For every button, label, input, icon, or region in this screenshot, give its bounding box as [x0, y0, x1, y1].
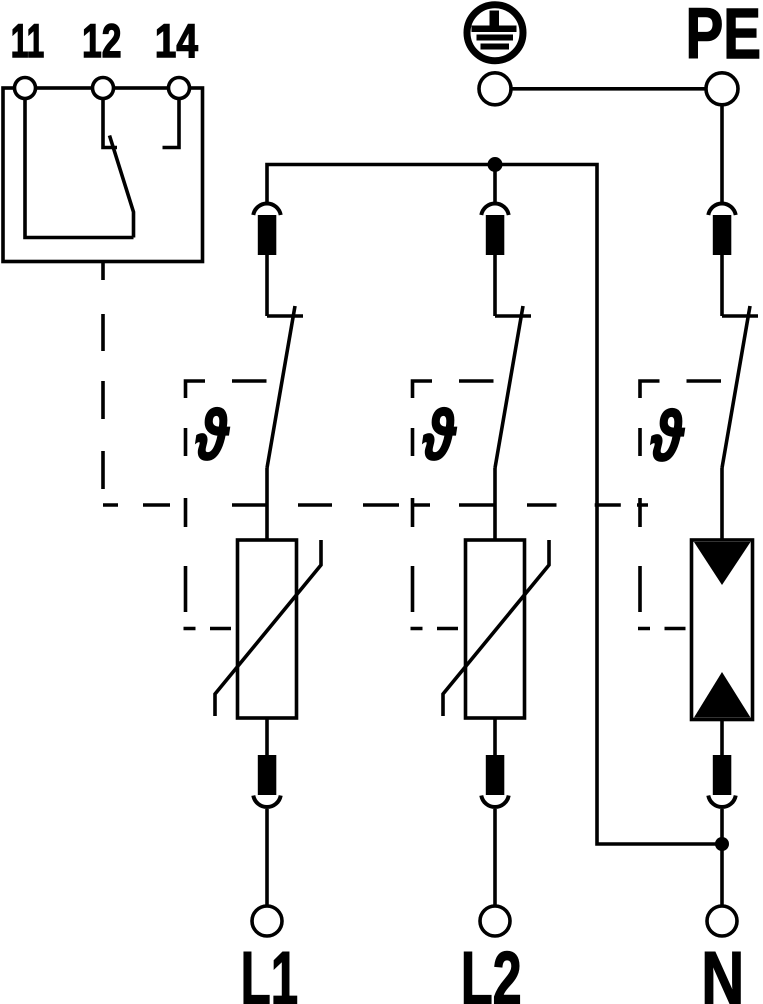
svg-text:12: 12	[82, 15, 122, 68]
terminal circle 12	[93, 78, 114, 99]
L2 varistor body	[466, 540, 525, 718]
L1 dashed enclosure	[184, 381, 267, 629]
dashed linkage horizontal run	[103, 503, 648, 507]
svg-text:ϑ: ϑ	[195, 397, 230, 475]
L1 wire varistor to bottom clamp	[265, 718, 269, 756]
N top clamp	[708, 203, 735, 255]
N wire clamp to junction	[720, 809, 724, 844]
svg-text:L1: L1	[241, 936, 299, 1004]
L1 top clamp	[253, 203, 280, 255]
svg-text:L2: L2	[461, 936, 522, 1004]
earth symbol stem and bars	[472, 11, 517, 50]
N spark gap lower electrode	[694, 672, 751, 718]
N theta symbol	[650, 398, 685, 476]
remote signalling contact box outline	[3, 88, 203, 262]
L1 varistor body	[238, 540, 297, 718]
earth terminal circle	[479, 73, 511, 105]
earth symbol ring	[467, 5, 523, 61]
N wire spark gap to bottom clamp	[720, 720, 724, 757]
wire fixed contact 14	[163, 100, 180, 148]
L1 terminal circle	[252, 906, 282, 936]
wire PE down to N branch	[720, 105, 724, 202]
wire L2 drop	[493, 165, 497, 203]
L2 bottom clamp	[481, 755, 508, 807]
N spark gap upper electrode	[694, 542, 751, 585]
L2 wire clamp to terminal	[493, 809, 497, 905]
svg-text:ϑ: ϑ	[650, 398, 685, 476]
wire earth to PE	[511, 87, 706, 91]
terminal circle 14	[169, 78, 190, 99]
wire from terminal 11	[25, 100, 134, 238]
stub below signalling box	[101, 262, 105, 281]
N bottom clamp	[708, 755, 735, 807]
L2 wire varistor to bottom clamp	[493, 718, 497, 756]
L2 theta symbol	[422, 397, 457, 475]
PE terminal circle	[706, 73, 738, 105]
L2 dashed enclosure	[411, 381, 494, 629]
N thermal disconnect switch	[722, 255, 758, 541]
terminal circle 11	[15, 78, 36, 99]
svg-text:11: 11	[11, 15, 45, 68]
L2 thermal disconnect switch	[495, 255, 531, 541]
N terminal circle	[707, 906, 737, 936]
dashed mechanical linkage from signalling box	[101, 314, 105, 489]
L1 bottom clamp	[253, 755, 280, 807]
wire fixed contact 12	[103, 100, 117, 148]
svg-text:N: N	[701, 936, 744, 1004]
L1 thermal disconnect switch	[267, 255, 303, 541]
L1 wire clamp to terminal	[265, 809, 269, 905]
L2 varistor diagonal	[443, 540, 549, 716]
svg-text:ϑ: ϑ	[422, 397, 457, 475]
L1 theta symbol	[195, 397, 230, 475]
changeover switch blade	[110, 136, 134, 238]
L2 top clamp	[481, 203, 508, 255]
svg-text:14: 14	[155, 15, 198, 68]
N dashed enclosure	[638, 381, 721, 629]
N spark gap body	[692, 540, 753, 720]
top bus wire	[267, 165, 722, 845]
junction node at N	[715, 837, 729, 851]
svg-text:PE: PE	[686, 0, 762, 74]
N wire junction to terminal	[720, 844, 724, 905]
junction node at L2	[488, 157, 503, 172]
L1 varistor diagonal	[215, 540, 321, 716]
L2 terminal circle	[480, 906, 510, 936]
